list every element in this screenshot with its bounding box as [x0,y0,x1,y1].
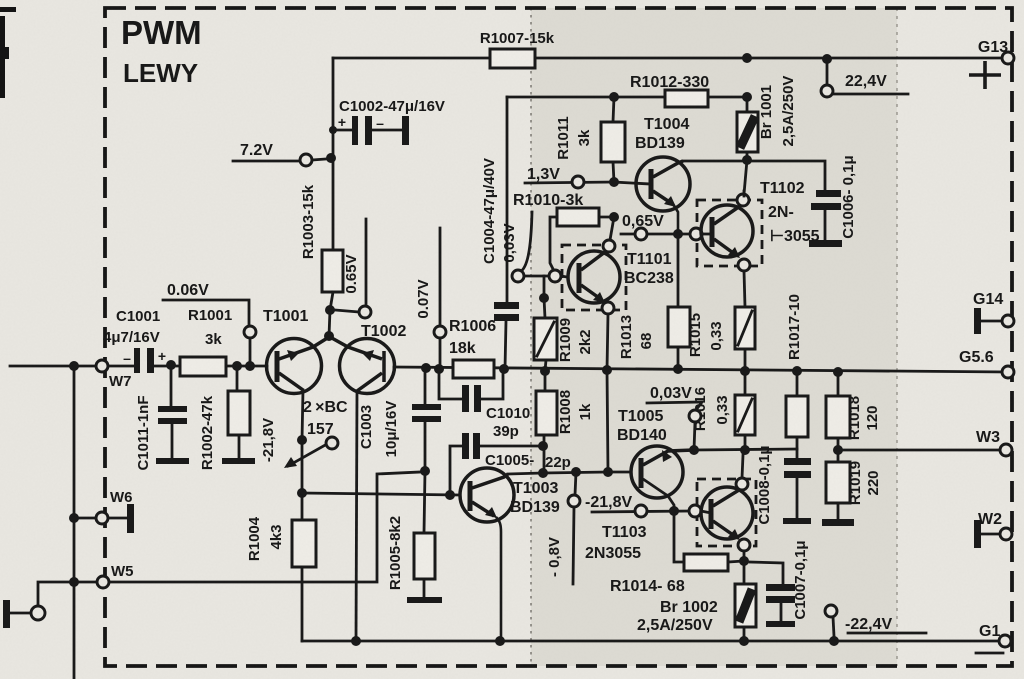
transistor T1005 [631,446,694,511]
resistor R1005 [387,471,442,603]
label 0.06V with probe [163,282,256,366]
resistor R1008 [536,371,594,473]
resistor R1014 [610,511,744,595]
wire C1006 feed [747,161,825,190]
resistor R1003 [300,184,343,310]
resistor R1018 [826,367,881,450]
wire W3 run [838,449,1000,452]
node T1003 base tap [297,488,307,498]
scan artifact black bar top-left [0,16,5,98]
scan artifact notch left [0,47,9,59]
node C1010 left [434,364,444,374]
fuse Br1002 [637,561,756,641]
node C1011 tap [166,360,176,370]
label 0.65V probe right [621,213,690,240]
label 0.03V probe at T1005 emitter [647,385,702,450]
label 22.4V with probe [821,64,908,97]
capacitor C1002 [329,98,445,145]
label T1102 [760,180,820,245]
label T1103 [585,524,647,562]
capacitor C1003 [358,369,441,471]
transistor T1102 [690,191,762,271]
resistor R1009 [534,298,594,371]
label -0.8V probe [546,472,580,584]
wire W5 feedback run [109,472,420,582]
node R1018 bottom / W3 [833,445,843,455]
transistor T1103 [689,455,756,557]
node Br1001 column top [742,92,752,102]
wire T1004 collector run [683,160,747,163]
node Br1001 top [742,53,752,63]
node input/ground column [69,361,79,371]
label T1003 [510,480,560,516]
wire common emitters [329,310,330,336]
wire T1003 base run [302,493,459,495]
wire T1002 collector column [356,391,357,641]
terminal W2 [974,511,1012,548]
resistor R1015 [687,271,755,371]
node T1003 emitter to rail [495,636,505,646]
wire bottom rail [302,640,1005,643]
terminal W5 with plug [3,563,134,628]
transistor T1004 [636,157,690,234]
wire Br1001 to T1102 collector [744,160,747,194]
node Br1001 bottom [742,155,752,165]
wire T1003 collector run [508,472,631,474]
node 7.2V junction [326,153,336,163]
wire top rail +22V [333,57,1008,60]
transistor T1001 [267,337,330,394]
resistor R1006 [449,318,496,378]
node T1005 base column [603,467,613,477]
resistor R1012 [630,74,709,107]
label 0.03V probe at T1101 base [501,212,567,294]
node Br1002 bottom on rail [739,636,749,646]
node R1002 tap [232,361,242,371]
transistor T1003 [460,468,514,641]
terminal W7 [96,360,132,390]
wire T1101 collector column [610,217,614,240]
transistor T1002 [330,337,395,394]
resistor R1007 [480,30,555,68]
node R1011 top [609,92,619,102]
wire emitter row to R1017 [694,449,797,450]
node -22.4V tap [829,636,839,646]
node R1016 bottom [740,445,750,455]
capacitor C1007 [750,540,809,627]
label T1005 [617,408,667,444]
wire T1101 emitter column [607,314,608,472]
label 0.65V probe left [335,219,371,318]
node T1002 collector to rail [351,636,361,646]
node T1103 base junction [669,506,679,516]
label T1101 [624,251,674,287]
node -21.8V probe tap [297,435,307,445]
node T1101 emitter on mid rail [602,365,612,375]
shaded module band [531,8,897,666]
node R1009 top [539,293,549,303]
resistor R1010 [513,192,614,269]
label 0.07V with probe [415,228,446,368]
scan grain overlay [0,0,1,1]
band dotted edge left [530,8,532,666]
label T1004 [635,116,689,152]
wire input from left edge [10,365,96,368]
label -21.8V probe right [585,494,690,517]
fuse Br1001 [737,76,797,160]
node T1005 emitter junction [689,445,699,455]
resistor R1004 [246,516,316,641]
node T1103 emitter junction [739,556,749,566]
node 22.4V tap [822,54,832,64]
resistor R1016 [692,371,755,450]
label 2xBC157 [303,399,348,438]
wire left drop to 7.2V node [332,58,335,250]
node R1013 bottom [673,364,683,374]
wire ground column vertical [73,366,76,679]
node C1005 right [538,441,548,451]
node C1003 bottom / W5 feedback [420,466,430,476]
resistor R1013 [618,234,690,369]
node C1003 top [421,363,431,373]
node T1004 base [609,177,619,187]
node R1003 bottom [325,305,335,315]
terminal G1 [976,623,1011,653]
wire T1001 collector column [302,390,303,520]
resistor R1019 [822,450,882,526]
capacitor C1008 [756,445,811,524]
transistor T1101 [562,240,626,314]
node R1006 right / C1004 [499,364,509,374]
terminal W3 [976,429,1012,456]
label -22.4V with probe [825,605,926,636]
terminal G5.6 [959,349,1014,378]
node R1009/R1008 on mid rail [540,366,550,376]
capacitor C1006 [809,155,857,247]
band dotted edge right [896,8,898,666]
node emitter junction [324,331,334,341]
label -21.8V probe arrow [260,418,338,468]
scan artifact dash top-left [0,7,16,12]
node T1004 emitter junction [673,229,683,239]
wire T1004 base stub [614,182,650,184]
wire input row segment 1 [108,365,136,368]
resistor R1002 [199,366,255,470]
node -0.8V tap [571,467,581,477]
node R1010 right [609,212,619,222]
terminal G14 [973,291,1014,334]
label 7.2V with probe [233,142,326,166]
capacitor C1010 [439,369,530,440]
terminal G13 [969,39,1014,89]
resistor R1017 [786,294,808,458]
wire main mid rail [394,367,1008,372]
wire input row segment 2 [154,365,182,368]
terminal W6 [69,489,134,533]
wire input row segment 3 [226,365,267,368]
resistor R1001 [180,307,232,376]
label 1.3V with probe [525,166,614,188]
node W5 cross ground column [69,577,79,587]
capacitor C1004 [481,97,519,369]
node R1008 bottom [538,468,548,478]
resistor R1011 [555,97,625,182]
capacitor C1011 [135,365,189,471]
wire R1012 row [507,96,747,99]
node 0.06V tap [245,361,255,371]
node R1015 bottom on mid rail [740,366,750,376]
capacitor C1001 [103,308,166,373]
capacitor C1005 [445,433,571,500]
